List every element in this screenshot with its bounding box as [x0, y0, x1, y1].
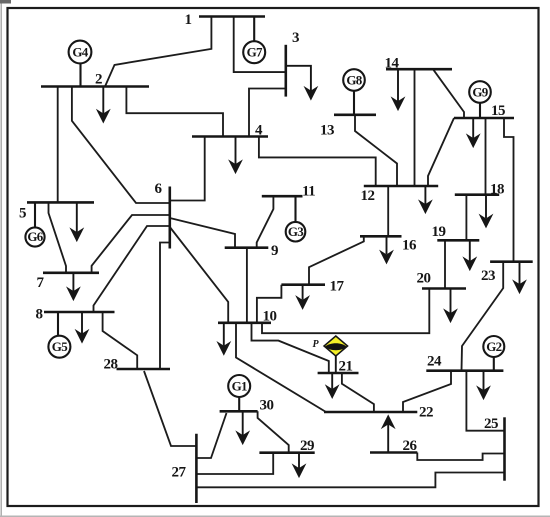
- svg-text:8: 8: [36, 307, 43, 323]
- wire 25-26: [417, 453, 504, 461]
- load arrow bus 30: [238, 411, 248, 443]
- load arrow bus 2: [98, 87, 108, 122]
- svg-text:G2: G2: [486, 339, 501, 354]
- bus 2: [41, 85, 149, 88]
- load arrow bus 19: [465, 240, 475, 269]
- svg-text:22: 22: [419, 405, 433, 421]
- load arrow bus 24: [479, 371, 489, 398]
- generator G6: [25, 202, 44, 246]
- wire 12-13: [355, 115, 397, 186]
- bus 9: [225, 246, 269, 249]
- wire 25-27: [196, 473, 504, 488]
- generator G9: [469, 81, 491, 118]
- svg-text:9: 9: [271, 243, 278, 259]
- bus 15: [454, 117, 514, 120]
- load arrow bus 10: [219, 323, 229, 354]
- wire 4-12: [259, 137, 376, 187]
- svg-text:G9: G9: [472, 84, 488, 99]
- bus 8: [44, 311, 115, 314]
- wire 5-7: [49, 202, 67, 272]
- bus 22: [324, 411, 417, 414]
- wire 24-25: [466, 371, 504, 431]
- bus 29: [259, 451, 314, 454]
- wire 23-24: [462, 262, 504, 371]
- generator G8: [343, 69, 365, 115]
- load arrow bus 4: [231, 137, 241, 173]
- svg-text:11: 11: [302, 183, 315, 199]
- svg-text:13: 13: [320, 123, 334, 139]
- bus 26: [370, 451, 417, 454]
- wire 12-16: [387, 186, 389, 236]
- bus 25: [503, 417, 506, 480]
- up arrow bus 26 to bus 22: [383, 417, 393, 453]
- svg-text:19: 19: [432, 224, 446, 240]
- svg-text:20: 20: [417, 271, 431, 287]
- bus 13: [334, 114, 376, 117]
- load arrow bus 12: [420, 186, 430, 212]
- bus 30: [220, 410, 258, 413]
- svg-text:G3: G3: [288, 224, 304, 239]
- bus 24: [426, 369, 503, 372]
- wire 6-7: [92, 215, 170, 273]
- wire 18-19: [465, 195, 467, 241]
- svg-text:5: 5: [19, 206, 26, 222]
- bus 7: [43, 271, 99, 274]
- svg-text:16: 16: [402, 238, 417, 254]
- wire 21-22: [342, 373, 374, 412]
- bus 17: [281, 283, 325, 286]
- load arrow bus 14: [393, 69, 403, 109]
- svg-text:10: 10: [263, 309, 277, 325]
- svg-text:28: 28: [104, 356, 118, 372]
- wire 6-8: [94, 226, 170, 312]
- wire 12-14: [414, 69, 416, 186]
- scan artifact left edge: [0, 0, 2, 517]
- wire 1-2: [105, 17, 211, 87]
- svg-text:1: 1: [185, 12, 192, 28]
- wire 8-28: [103, 312, 138, 369]
- svg-text:18: 18: [490, 181, 504, 197]
- bus 11: [262, 195, 303, 198]
- svg-text:2: 2: [95, 72, 102, 88]
- bus 16: [360, 235, 402, 238]
- wire 29-30: [258, 411, 289, 452]
- bus 4: [192, 135, 268, 138]
- wire 9-11: [257, 196, 274, 248]
- svg-text:27: 27: [172, 465, 187, 481]
- svg-text:12: 12: [361, 188, 375, 204]
- bus 1: [199, 15, 265, 18]
- load arrow bus 29: [294, 453, 304, 476]
- wire 27-29: [196, 453, 273, 474]
- svg-text:24: 24: [427, 353, 442, 369]
- svg-text:30: 30: [260, 397, 274, 413]
- bus 12: [364, 185, 438, 188]
- wire 16-17: [309, 236, 364, 284]
- load arrow bus 23: [515, 262, 525, 292]
- bus 21: [318, 372, 359, 375]
- wire 10-20: [262, 289, 429, 334]
- wire 10-17: [257, 285, 282, 323]
- bus 23: [490, 260, 533, 263]
- wire 22-24: [403, 371, 451, 412]
- load arrow bus 20: [446, 289, 456, 322]
- svg-text:4: 4: [255, 123, 263, 139]
- svg-text:3: 3: [292, 30, 299, 46]
- wire 1-3: [234, 17, 286, 73]
- generator G1: [228, 375, 250, 411]
- wire 9-10: [246, 248, 248, 323]
- svg-text:6: 6: [155, 181, 163, 197]
- load arrow bus 7: [68, 273, 78, 299]
- scan artifact top-left smudge: [0, 0, 11, 4]
- load arrow bus 5: [72, 202, 82, 240]
- svg-text:G1: G1: [232, 378, 247, 393]
- wire 6-10: [170, 227, 228, 323]
- svg-text:15: 15: [491, 103, 505, 119]
- load arrow bus 16: [382, 236, 392, 262]
- load arrow bus 3: [286, 66, 316, 99]
- wire 3-4: [249, 89, 286, 137]
- svg-text:G5: G5: [52, 339, 68, 354]
- wire 6-9: [170, 218, 235, 248]
- bus 28: [117, 368, 171, 371]
- generator G4: [69, 41, 92, 87]
- wire 4-6: [170, 137, 205, 201]
- load arrow bus 17: [298, 285, 308, 308]
- load arrow bus 18: [481, 195, 491, 227]
- FACTS device P at bus 21: [324, 336, 348, 373]
- load arrow bus 8: [77, 312, 87, 342]
- svg-text:G8: G8: [346, 72, 362, 87]
- bus 10: [218, 321, 271, 324]
- wire 2-5: [57, 87, 59, 203]
- svg-text:P: P: [313, 339, 320, 350]
- bus 5: [27, 201, 94, 204]
- svg-text:7: 7: [37, 275, 45, 291]
- load arrow bus 15: [468, 118, 478, 146]
- svg-text:23: 23: [481, 268, 495, 284]
- svg-text:26: 26: [403, 438, 418, 454]
- wire 12-15: [428, 118, 454, 186]
- svg-text:21: 21: [339, 359, 353, 375]
- wire 19-20: [444, 240, 446, 288]
- bus 19: [437, 239, 479, 242]
- wire 10-22: [236, 323, 326, 412]
- generator G7: [243, 17, 265, 64]
- svg-text:G4: G4: [72, 44, 88, 59]
- scan artifact bottom edge: [0, 515, 550, 517]
- svg-text:29: 29: [300, 438, 314, 454]
- bus 6: [169, 187, 172, 249]
- generator G2: [483, 336, 504, 371]
- generator G5: [48, 312, 70, 358]
- svg-text:25: 25: [484, 416, 498, 432]
- generator G3: [286, 196, 306, 241]
- wire 2-4: [126, 87, 223, 137]
- bus 3: [284, 45, 287, 97]
- svg-text:17: 17: [330, 279, 345, 295]
- wire 15-23: [504, 118, 514, 262]
- bus 27: [195, 434, 198, 503]
- bus 14: [386, 68, 452, 71]
- wire 27-30: [196, 413, 226, 458]
- bus 20: [422, 287, 466, 290]
- wire 27-28: [144, 371, 196, 446]
- svg-text:14: 14: [385, 56, 400, 72]
- svg-text:G6: G6: [27, 229, 43, 244]
- wire 6-28: [160, 243, 170, 370]
- svg-text:G7: G7: [247, 45, 263, 60]
- bus 18: [455, 193, 499, 196]
- wire 15-18: [485, 118, 487, 195]
- wire 10-21: [252, 323, 329, 373]
- wire 14-15: [433, 69, 464, 118]
- load arrow bus 21: [327, 373, 337, 397]
- wire 2-6: [72, 87, 170, 204]
